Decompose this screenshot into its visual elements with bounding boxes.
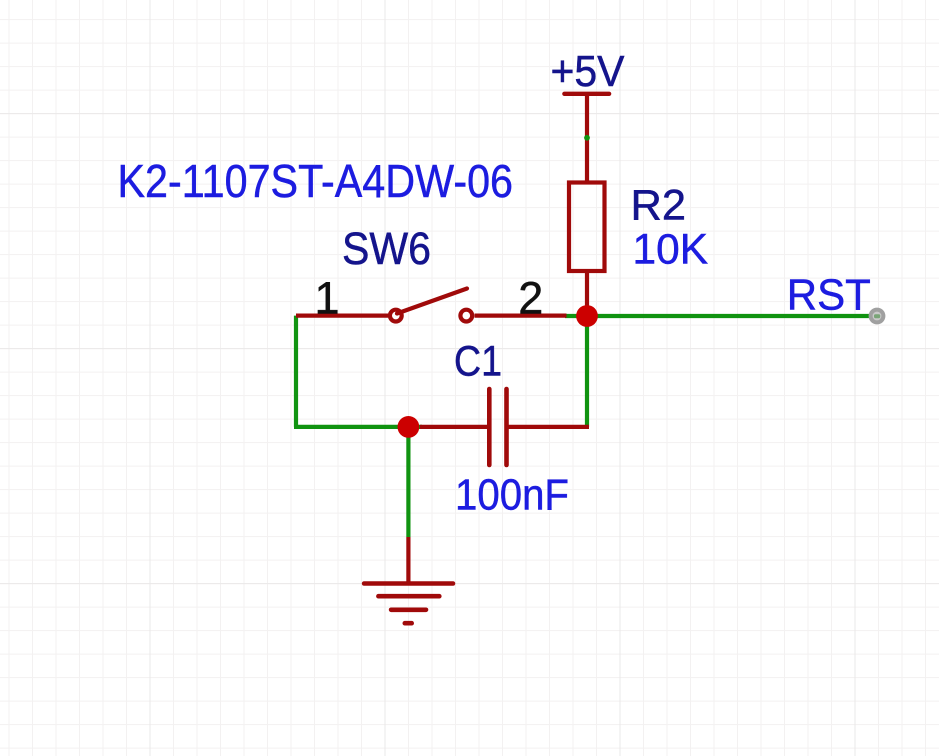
node junction at C1 / GND bbox=[398, 416, 420, 438]
node junction at R2 / SW6 pin 2 / RST bbox=[576, 305, 598, 327]
net port RST endpoint bbox=[869, 308, 886, 325]
svg-text:RST: RST bbox=[787, 270, 871, 319]
svg-text:100nF: 100nF bbox=[455, 471, 569, 520]
pin 2 wire bbox=[475, 314, 567, 318]
wire: net RST horizontal from junction to port bbox=[565, 314, 877, 318]
wire junction dot on +5V pin bbox=[584, 135, 590, 141]
svg-text:K2-1107ST-A4DW-06: K2-1107ST-A4DW-06 bbox=[118, 155, 514, 207]
pin 1 circle bbox=[390, 310, 402, 322]
svg-text:C1: C1 bbox=[454, 338, 502, 386]
svg-text:10K: 10K bbox=[633, 225, 709, 273]
svg-text:R2: R2 bbox=[631, 181, 687, 229]
capacitor C1 bbox=[420, 389, 589, 465]
wire: green bottom horizontal bbox=[294, 425, 422, 429]
svg-text:SW6: SW6 bbox=[342, 223, 431, 274]
wire: green vertical right (junction to C1 wire) bbox=[585, 316, 589, 427]
svg-text:+5V: +5V bbox=[551, 47, 626, 96]
wire: green vertical to ground bbox=[406, 427, 410, 537]
resistor R2 bbox=[569, 183, 605, 317]
pin 1 wire bbox=[296, 314, 388, 318]
power +5V bbox=[564, 94, 609, 183]
switch SW6 bbox=[296, 289, 567, 322]
lever bbox=[397, 289, 467, 314]
svg-text:1: 1 bbox=[314, 273, 339, 324]
wire: green vertical left (switch pin1 down) bbox=[294, 316, 298, 427]
pin 2 circle bbox=[460, 310, 472, 322]
ground bbox=[364, 537, 453, 623]
svg-text:2: 2 bbox=[518, 272, 543, 323]
